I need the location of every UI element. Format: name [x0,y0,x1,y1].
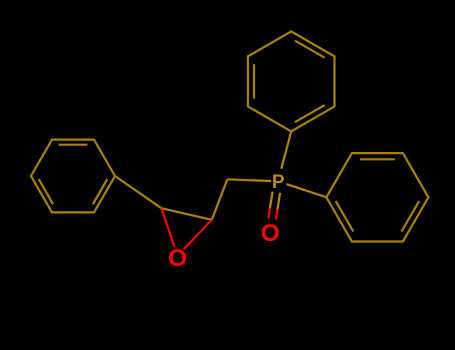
bond P-phenyl(top) carbon half [286,131,291,150]
bond C3-O (red) [161,208,174,247]
bond P-phenyl(top) gold half [281,150,286,169]
bond C2-O (red) [184,220,212,249]
bond C2-C3 (oxirane) [161,208,212,220]
benzene ring top phenyl [248,31,335,131]
benzene ring left phenyl [31,140,115,213]
svg-text:P: P [272,172,285,193]
bond P-phenyl(right) gold half [287,184,307,191]
svg-text:O: O [261,220,280,247]
benzene ring right phenyl [326,153,428,241]
P=O line gold half [277,193,280,210]
bond P-phenyl(right) carbon half [307,191,327,198]
P=O line red half [276,210,278,220]
bond P-CH2 gold half [249,179,271,182]
P=O line red half [268,208,270,218]
bond C3-phenyl [115,176,161,208]
svg-text:O: O [168,245,187,272]
bond P-CH2 carbon half [227,178,249,181]
bond CH2-C2 [212,179,228,220]
P=O line gold half [270,192,273,209]
